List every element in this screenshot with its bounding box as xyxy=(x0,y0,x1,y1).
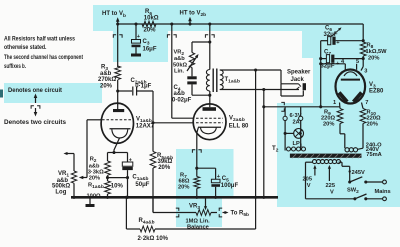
svg-text:20%: 20% xyxy=(367,122,378,128)
T2 heater winding xyxy=(287,147,306,151)
label R3 ab xyxy=(100,71,112,77)
label R4 xyxy=(139,218,155,226)
junction rail/C3 xyxy=(134,22,137,25)
svg-text:a&b: a&b xyxy=(174,56,185,62)
label R6 tol xyxy=(144,27,157,33)
label R1 value xyxy=(87,193,101,199)
T2 primary winding xyxy=(313,160,341,164)
wire: R1 to bus xyxy=(107,194,109,197)
wire: VR2 to C4 xyxy=(191,68,193,77)
bus junction VR1 xyxy=(72,196,75,199)
label C1 xyxy=(132,174,148,182)
wire: rail to T1 primary xyxy=(209,24,211,70)
label R6 value xyxy=(144,16,159,22)
V1 anode xyxy=(113,104,124,113)
cyan highlight: top HT rail band xyxy=(93,5,400,31)
label R8 value xyxy=(366,49,388,55)
junction lamp left xyxy=(284,132,287,135)
speaker jack bush xyxy=(303,83,306,90)
label pin4 xyxy=(341,59,345,65)
capacitor C4 plates xyxy=(187,76,196,84)
svg-text:100μF: 100μF xyxy=(221,183,239,189)
V3 pin5 lead xyxy=(356,64,358,70)
V3 anode right xyxy=(352,91,363,103)
label C6 value xyxy=(324,32,338,38)
junction R2/R1 xyxy=(106,176,109,179)
wire: R2/R1 junction to C1 lead xyxy=(108,176,130,179)
note: otherwise stated xyxy=(4,44,47,51)
heater junction xyxy=(262,105,265,108)
svg-text:75mA: 75mA xyxy=(366,152,382,158)
wire: C2 corner to V2 grid xyxy=(153,122,193,124)
label VR3 value xyxy=(186,219,211,225)
mains terminal lower xyxy=(383,197,387,201)
label C2 xyxy=(131,78,147,86)
note: suffixes b xyxy=(4,63,26,70)
resistor R7 xyxy=(194,177,200,189)
wire: VR3 right xyxy=(211,212,217,214)
label R8 xyxy=(367,43,374,51)
svg-text:0·02μF: 0·02μF xyxy=(172,98,192,104)
wire: R5 line to VR3 xyxy=(153,197,196,212)
cyan highlight: cathode network block xyxy=(176,149,234,227)
label 240V xyxy=(366,147,379,153)
svg-text:otherwise stated.: otherwise stated. xyxy=(4,44,47,51)
label 225 V xyxy=(330,190,334,196)
label HT to V2b xyxy=(180,11,207,19)
VR1 wiper arrow xyxy=(79,176,87,180)
svg-text:The second channel has compone: The second channel has component xyxy=(4,54,84,61)
transformer T1 core xyxy=(213,69,217,93)
label R9 tol xyxy=(323,122,334,128)
svg-text:20%: 20% xyxy=(89,176,100,182)
label V2 xyxy=(229,116,245,124)
label R7 value xyxy=(179,179,190,185)
label R3 value xyxy=(98,77,116,83)
svg-text:V: V xyxy=(307,183,311,189)
label 225 xyxy=(326,183,336,189)
svg-text:7: 7 xyxy=(365,100,368,106)
svg-text:20%: 20% xyxy=(368,56,379,62)
svg-text:1kΩ,5W: 1kΩ,5W xyxy=(366,49,388,55)
svg-text:EZ80: EZ80 xyxy=(369,89,384,95)
label V3 type xyxy=(369,89,384,95)
label Jack xyxy=(291,77,305,83)
V3 pin4 lead xyxy=(319,62,345,70)
VR2 wiper arrow xyxy=(187,54,199,71)
junction grid/R5 xyxy=(151,121,154,124)
wire: bus to R4 xyxy=(125,196,128,229)
label R5 tol xyxy=(158,165,171,171)
input arrow (one circuit) xyxy=(64,152,68,155)
capacitor C7 plates xyxy=(326,55,334,63)
two-circuit bracket (T1 line) xyxy=(205,35,214,38)
svg-text:Jack: Jack xyxy=(291,77,305,83)
label C5 xyxy=(222,176,229,184)
resistor R6 (on rail) xyxy=(142,21,156,27)
wire: VR1 bottom xyxy=(73,183,75,197)
label 205 xyxy=(303,177,313,183)
capacitor C3 plates xyxy=(132,40,141,48)
label 75mA xyxy=(366,152,382,158)
label C4 xyxy=(174,85,181,93)
label R5 xyxy=(157,153,173,161)
terminal 6.3V right xyxy=(299,107,303,121)
label VR3 xyxy=(189,204,200,212)
HT to V2b arrow xyxy=(188,17,192,26)
V1 cathode xyxy=(110,129,131,138)
bus junction R1 xyxy=(106,196,109,199)
svg-text:2·2kΩ 10%: 2·2kΩ 10% xyxy=(138,236,169,242)
junction heater drop xyxy=(262,88,265,91)
resistor R4 xyxy=(140,226,155,232)
wire: primary left xyxy=(306,162,313,199)
svg-text:Denotes one circuit: Denotes one circuit xyxy=(8,87,63,94)
svg-text:ELL 80: ELL 80 xyxy=(229,123,249,129)
svg-text:270kΩ: 270kΩ xyxy=(98,77,116,83)
wire: grid to R5 xyxy=(152,123,154,152)
V3 pin1 lead xyxy=(339,103,342,109)
wire: R5 to balance xyxy=(152,168,154,213)
bus junction C5 xyxy=(214,196,217,199)
junction R3/C2 xyxy=(116,89,119,92)
heater corner junction xyxy=(319,105,322,108)
capacitor C6 plates xyxy=(328,37,336,45)
label R5 value xyxy=(158,159,173,165)
two-circuit bracket (screen line) xyxy=(167,35,176,38)
transformer T1 secondary coil xyxy=(220,70,223,90)
svg-text:suffixes b.: suffixes b. xyxy=(4,63,26,70)
tap 205V arrow xyxy=(313,165,316,176)
label C1 plus xyxy=(129,157,132,163)
VR3 wiper xyxy=(204,197,207,210)
wire: lamp leads xyxy=(285,121,301,151)
terminal 6.3V left xyxy=(283,107,287,121)
label C7 plus xyxy=(336,61,340,67)
svg-text:Mains: Mains xyxy=(375,189,391,195)
wire: anode to C2 xyxy=(118,90,132,92)
potentiometer VR1 xyxy=(71,171,76,183)
wire: C7 right xyxy=(334,58,363,60)
label R2 value xyxy=(88,170,104,176)
resistor R9 xyxy=(337,109,343,124)
junction rail/T1 xyxy=(208,22,211,25)
switch SW2 upper xyxy=(348,177,382,184)
svg-text:20%: 20% xyxy=(144,27,157,33)
legend arrow (one circuit) xyxy=(34,94,38,104)
wire: heater drop xyxy=(262,90,265,199)
mains terminal upper xyxy=(383,180,387,184)
label VR1 law xyxy=(55,189,66,195)
junction C6 xyxy=(362,39,365,42)
ground symbol (chassis) xyxy=(86,197,95,207)
label V1 type xyxy=(136,124,155,130)
label LP1 xyxy=(293,141,303,149)
wire: C3 to ground xyxy=(135,47,137,53)
svg-text:3: 3 xyxy=(364,68,367,74)
label R1 tol xyxy=(111,183,124,189)
label pin1 xyxy=(333,100,336,106)
wire: R10 bottom xyxy=(362,124,364,149)
label C4 ab xyxy=(174,91,186,97)
V3 cathode bar xyxy=(341,79,360,81)
label VR2 xyxy=(174,50,185,58)
label SW2 xyxy=(347,188,359,196)
svg-text:50kΩ: 50kΩ xyxy=(173,62,187,68)
svg-text:32μF: 32μF xyxy=(321,63,335,69)
wire: C7 left xyxy=(319,57,326,60)
label pin7 xyxy=(365,100,368,106)
transformer T2 core xyxy=(290,154,362,159)
wire: C6 right xyxy=(336,40,364,42)
label C5 value xyxy=(221,183,239,189)
speaker jack signal contact xyxy=(296,87,299,90)
label R10 value xyxy=(367,116,381,122)
svg-text:5: 5 xyxy=(356,59,359,65)
speaker jack tip contact xyxy=(281,84,301,87)
wire: 245V tap xyxy=(339,162,351,182)
lamp LP1 xyxy=(294,129,304,139)
label V2 type xyxy=(229,123,249,129)
label R7 xyxy=(180,173,187,181)
V2 control grid (dashed) xyxy=(196,122,223,124)
junction cathode xyxy=(112,151,115,154)
two-circuit bracket (VR3 left) xyxy=(176,208,179,217)
pentode V2 envelope xyxy=(193,104,226,140)
svg-text:12AX7: 12AX7 xyxy=(136,124,155,130)
wire: V1 grid left xyxy=(87,120,102,178)
wire: rail to V2 screen xyxy=(172,24,194,118)
T2 HT secondary coil xyxy=(345,148,363,152)
svg-text:20%: 20% xyxy=(323,122,334,128)
wire: R7 leads xyxy=(196,168,198,197)
resistor R2 xyxy=(105,161,111,175)
svg-text:All Resistors half watt unless: All Resistors half watt unless xyxy=(4,36,75,43)
wire: VR1 top xyxy=(67,154,75,172)
svg-text:20%: 20% xyxy=(158,165,171,171)
two-circuit bracket (V1 column) xyxy=(113,35,122,38)
speaker jack frame xyxy=(281,84,303,96)
wire: HT rail xyxy=(118,23,364,25)
V3 pin7 lead xyxy=(362,103,364,109)
label C2 value xyxy=(135,84,151,90)
label C3 plus xyxy=(137,34,140,40)
label 245V xyxy=(352,170,365,176)
wire: rail to R3 xyxy=(117,24,119,67)
label R3 tol xyxy=(100,84,113,90)
capacitor C2 xyxy=(133,87,137,96)
label Mains xyxy=(375,189,391,195)
label R10 tol xyxy=(367,122,378,128)
label C7 xyxy=(324,50,331,58)
label R2 xyxy=(90,156,97,164)
legend down arrow (two circuits) xyxy=(34,108,38,117)
V2 anode xyxy=(203,104,217,111)
junction rail/R3 xyxy=(116,22,119,25)
resistor R1 xyxy=(105,181,111,194)
resistor R8 xyxy=(360,42,366,56)
switch SW2 lower xyxy=(353,194,382,200)
wire: C6 left xyxy=(321,40,328,42)
label C4 value xyxy=(172,98,192,104)
ground (C3) xyxy=(131,54,141,57)
label T1 xyxy=(225,77,240,85)
label R3 xyxy=(101,64,108,72)
label C7 value xyxy=(321,63,335,69)
resistor R5 xyxy=(150,152,156,169)
V1 grid (dashed) xyxy=(102,119,133,121)
wire: R4 right xyxy=(155,197,256,229)
HT to Vb arrow xyxy=(116,17,120,24)
wire: secondary ground drop xyxy=(254,70,257,199)
wire: R8 to pin3 xyxy=(361,56,363,71)
label VR2 value xyxy=(173,62,187,68)
label R7 tol xyxy=(178,185,189,191)
bus junction R7 xyxy=(195,196,198,199)
ground bus xyxy=(71,196,278,199)
wire: secondary bottom xyxy=(220,89,299,91)
bus junction C1 xyxy=(126,196,129,199)
svg-text:a&b: a&b xyxy=(174,91,186,97)
V2 cathode xyxy=(198,127,221,134)
V2 cathode lead xyxy=(197,128,199,169)
wire: T2 bottom xyxy=(306,198,355,200)
to R5b arrow xyxy=(223,211,229,214)
V3 heater arc xyxy=(344,72,357,76)
svg-text:a&b: a&b xyxy=(100,71,112,77)
svg-text:1: 1 xyxy=(333,100,336,106)
label To R5b xyxy=(231,211,250,219)
svg-text:20%: 20% xyxy=(100,84,113,90)
note: all resistors xyxy=(4,36,75,43)
svg-text:Log: Log xyxy=(55,189,66,195)
wire: cathode to C1 xyxy=(114,153,128,163)
svg-text:Lin.: Lin. xyxy=(174,69,185,75)
svg-text:20%: 20% xyxy=(178,185,189,191)
wire: R4 left lead xyxy=(126,228,140,230)
svg-text:6·3V: 6·3V xyxy=(290,113,302,119)
label 2A xyxy=(293,120,300,126)
label VR1 xyxy=(58,171,69,179)
wire: C4 to anode line xyxy=(192,84,210,95)
wire: C2 to grid corner xyxy=(137,91,153,123)
legend bracket (two circuits) xyxy=(31,106,40,109)
svg-text:0·1μF: 0·1μF xyxy=(135,84,151,90)
label R9 xyxy=(324,110,331,118)
junction secondary top xyxy=(254,68,257,71)
wire: rail corner down xyxy=(362,24,364,42)
potentiometer VR2 xyxy=(189,53,194,68)
resistor R3 xyxy=(115,66,121,80)
label C5 plus xyxy=(217,174,221,180)
wire: cathode node to C5 xyxy=(197,168,216,179)
svg-text:205: 205 xyxy=(303,177,313,183)
cyan highlight: right power-supply block xyxy=(277,6,400,207)
svg-text:+: + xyxy=(137,34,140,40)
svg-text:+: + xyxy=(129,157,132,163)
label C1 value xyxy=(135,182,149,188)
label R4 value xyxy=(138,236,169,242)
label R6 xyxy=(145,9,152,17)
transformer T1 primary coil xyxy=(206,70,209,92)
label VR3 balance xyxy=(187,225,209,231)
scan mark (left edge) xyxy=(0,90,3,98)
resistor R10 xyxy=(360,109,366,124)
junction lamp right xyxy=(300,132,302,134)
svg-text:2A: 2A xyxy=(293,120,300,126)
svg-text:10%: 10% xyxy=(111,183,124,189)
svg-text:a&b: a&b xyxy=(89,163,100,169)
two-circuit bracket (V2 cathode) xyxy=(192,150,201,153)
svg-text:245V: 245V xyxy=(352,170,365,176)
label 240-0 xyxy=(366,142,382,148)
wire: T1 primary to V2 anode xyxy=(209,91,211,104)
label VR2 law xyxy=(174,69,185,75)
cyan highlight: legend box xyxy=(4,83,102,103)
svg-text:V: V xyxy=(330,190,334,196)
label 205 V xyxy=(307,183,311,189)
tap 225V arrow xyxy=(328,165,331,181)
wire: secondary top xyxy=(220,70,281,84)
two-circuit bracket (heater) xyxy=(281,102,284,111)
label VR1 value xyxy=(52,184,70,190)
label R2 tol xyxy=(89,176,100,182)
wire: cathode to R2 xyxy=(108,153,115,162)
junction cathode V2 xyxy=(195,167,198,170)
label VR1 ab xyxy=(57,178,69,184)
V2 screen grid (dashed) xyxy=(196,117,223,119)
label C6 plus xyxy=(336,40,340,46)
potentiometer VR3 xyxy=(196,210,211,216)
legend text: Denotes one circuit xyxy=(8,87,63,94)
junction rail/screen xyxy=(170,22,173,25)
svg-text:10kΩ: 10kΩ xyxy=(144,16,159,22)
wire: R9 bottom jog xyxy=(340,124,345,149)
note: second channel xyxy=(4,54,84,61)
label R9 value xyxy=(321,116,335,122)
svg-text:Speaker: Speaker xyxy=(287,70,311,76)
label pin3 xyxy=(364,68,367,74)
wire: VR2 branch xyxy=(192,40,211,52)
label C3 value xyxy=(143,47,157,53)
cyan highlight: C3 area extension xyxy=(113,29,168,62)
C6 polarity mark xyxy=(332,27,342,36)
label C6 xyxy=(325,26,332,34)
label R8 tol xyxy=(368,56,379,62)
label 6.3V xyxy=(290,113,302,119)
wire: C1 to bus xyxy=(127,170,129,197)
svg-text:225: 225 xyxy=(326,183,336,189)
wire: C6/C7 ground line xyxy=(320,41,322,107)
label R10 xyxy=(367,110,377,118)
label Speaker xyxy=(287,70,311,76)
label V3 xyxy=(369,82,376,90)
wire: C3 to rail xyxy=(135,24,137,39)
label VR2 ab xyxy=(174,56,185,62)
label V1 xyxy=(136,116,152,124)
junction C7 xyxy=(362,57,365,60)
junction anode/C4 xyxy=(208,94,211,97)
svg-text:Denotes two circuits: Denotes two circuits xyxy=(4,119,66,126)
V3 anode left xyxy=(338,91,349,103)
V1 cathode lead xyxy=(114,138,120,153)
rectifier V3 envelope xyxy=(336,70,366,104)
triode V1 envelope xyxy=(101,103,133,143)
label HT to Vb xyxy=(102,11,126,19)
legend text: Denotes two circuits xyxy=(4,119,66,126)
capacitor C1 plates xyxy=(122,162,133,170)
svg-text:16μF: 16μF xyxy=(143,47,157,53)
